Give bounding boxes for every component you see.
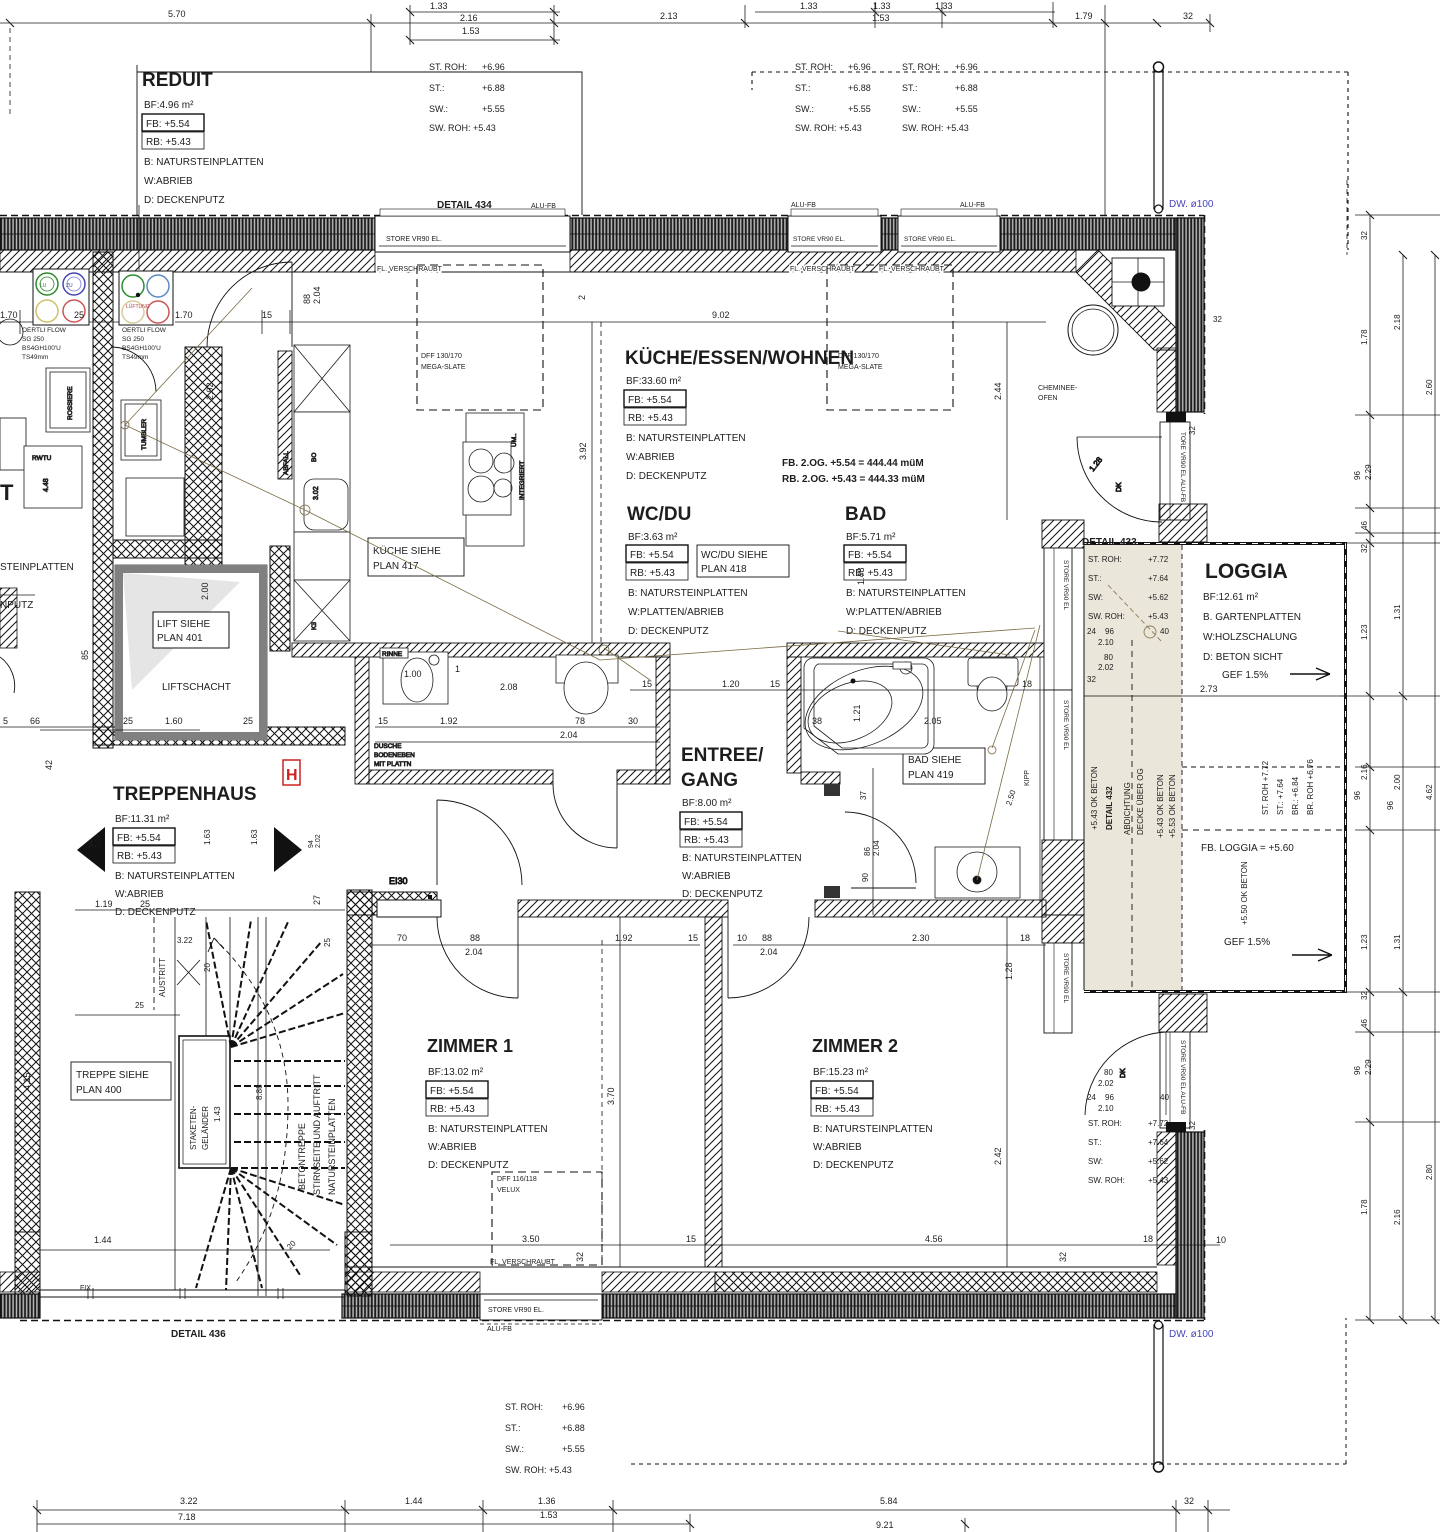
svg-text:32: 32: [1360, 544, 1369, 553]
mid dim row y690: [375, 690, 1046, 742]
bad door: [851, 887, 916, 889]
svg-text:27: 27: [312, 895, 322, 905]
svg-text:2.04: 2.04: [465, 947, 483, 957]
kitchen island + cooktop: [463, 413, 526, 546]
svg-text:TORE VR90 EL ALU-FB: TORE VR90 EL ALU-FB: [1179, 432, 1186, 502]
svg-text:W:HOLZSCHALUNG: W:HOLZSCHALUNG: [1203, 632, 1297, 643]
ENTREE: [680, 745, 802, 900]
svg-text:9.02: 9.02: [712, 310, 730, 320]
svg-text:4.15: 4.15: [22, 1072, 32, 1090]
svg-text:LIFT SIEHE: LIFT SIEHE: [157, 619, 210, 630]
dashed reference rect top right: [752, 72, 1348, 250]
loggia top door block: [1159, 504, 1207, 542]
section arrows: [77, 827, 105, 872]
svg-text:+5.62: +5.62: [1148, 1157, 1169, 1166]
svg-text:2.44: 2.44: [993, 382, 1003, 400]
BAD shower: [935, 847, 1020, 898]
ZIMMER 1: [426, 1036, 548, 1171]
svg-text:2.30: 2.30: [912, 933, 930, 943]
walking line: [214, 938, 288, 1282]
svg-text:ST. ROH:: ST. ROH:: [795, 62, 833, 72]
loggia bottom door: [1085, 1032, 1166, 1115]
lift dims: [80, 582, 210, 660]
svg-text:GEF 1.5%: GEF 1.5%: [1224, 937, 1270, 948]
treppenhaus left wall: [15, 892, 40, 1232]
bottom-left crosshatch piers: [15, 1232, 40, 1294]
svg-text:+7.64: +7.64: [1148, 1138, 1169, 1147]
ZIMMER 2: [811, 1036, 933, 1171]
svg-text:3.70: 3.70: [606, 1087, 616, 1105]
svg-text:DETAIL 432: DETAIL 432: [1105, 786, 1114, 830]
kitchen tall cabinets: [283, 345, 350, 641]
svg-text:ST.:: ST.:: [505, 1423, 521, 1433]
svg-text:66: 66: [30, 716, 40, 726]
zimmer1 door: [517, 917, 519, 998]
top measurement block: [429, 62, 505, 133]
svg-text:ALU-FB: ALU-FB: [960, 202, 985, 209]
svg-text:32: 32: [1213, 315, 1222, 324]
bad floor drain: [851, 679, 856, 684]
vent unit 1: [33, 269, 89, 325]
svg-text:1.53: 1.53: [540, 1510, 558, 1520]
svg-text:15: 15: [688, 933, 698, 943]
svg-text:ST.:: ST.:: [429, 83, 445, 93]
svg-text:OFEN: OFEN: [1038, 395, 1057, 402]
svg-text:+5.50 OK BETON: +5.50 OK BETON: [1240, 861, 1249, 925]
svg-text:+5.53 OK BETON: +5.53 OK BETON: [1168, 774, 1177, 838]
svg-text:1.78: 1.78: [1360, 1199, 1369, 1215]
bottom window: [480, 1259, 602, 1333]
svg-text:2.16: 2.16: [460, 13, 478, 23]
svg-text:ZIMMER 1: ZIMMER 1: [427, 1036, 513, 1056]
svg-text:1.53: 1.53: [462, 26, 480, 36]
svg-text:2.10: 2.10: [1098, 638, 1114, 647]
BAD WC: [968, 658, 1018, 711]
svg-text:RB: +5.43: RB: +5.43: [117, 851, 162, 862]
svg-text:+7.72: +7.72: [1148, 1119, 1169, 1128]
svg-text:PLAN 419: PLAN 419: [908, 770, 954, 781]
svg-text:ST. ROH:: ST. ROH:: [429, 62, 467, 72]
svg-text:2.29: 2.29: [1364, 1059, 1373, 1075]
vent unit 2: [119, 271, 173, 325]
svg-text:80: 80: [1104, 653, 1113, 662]
loggia left small texts: [1087, 555, 1169, 684]
treppenhaus upper dims: [40, 730, 345, 1015]
svg-text:SW.:: SW.:: [505, 1444, 524, 1454]
svg-text:1.79: 1.79: [1075, 11, 1093, 21]
svg-text:ST. ROH +7.72: ST. ROH +7.72: [1261, 760, 1270, 815]
svg-text:BF:3.63 m²: BF:3.63 m²: [628, 532, 678, 543]
stairwell bottom window: [40, 1288, 345, 1340]
svg-text:9.21: 9.21: [876, 1520, 894, 1530]
svg-text:2.02: 2.02: [1098, 1079, 1114, 1088]
svg-text:ROSSIERE: ROSSIERE: [67, 386, 74, 420]
svg-text:1.78: 1.78: [1360, 329, 1369, 345]
svg-text:2.16: 2.16: [1360, 764, 1369, 780]
window W3 top: [898, 209, 1000, 252]
svg-text:AUSTRITT: AUSTRITT: [158, 958, 167, 997]
svg-text:D: DECKENPUTZ: D: DECKENPUTZ: [628, 626, 709, 637]
svg-text:2.80: 2.80: [1425, 1164, 1434, 1180]
svg-text:1.53: 1.53: [872, 13, 890, 23]
svg-text:DUSCHE: DUSCHE: [374, 743, 402, 750]
svg-text:+7.72: +7.72: [1148, 555, 1169, 564]
svg-text:32: 32: [1184, 1496, 1194, 1506]
svg-text:2: 2: [577, 295, 587, 300]
svg-text:BS4GH100'U: BS4GH100'U: [122, 345, 161, 352]
svg-text:BF:12.61 m²: BF:12.61 m²: [1203, 592, 1259, 603]
zimmer top wall xh segment: [347, 892, 437, 915]
svg-text:+6.88: +6.88: [848, 83, 871, 93]
svg-text:DK: DK: [1120, 1068, 1127, 1078]
svg-text:CHEMINEE-: CHEMINEE-: [1038, 385, 1078, 392]
left unit fixtures: [24, 368, 184, 536]
svg-text:GELÄNDER: GELÄNDER: [201, 1106, 210, 1150]
svg-text:37: 37: [859, 791, 868, 800]
svg-text:B: NATURSTEINPLATTEN: B: NATURSTEINPLATTEN: [428, 1124, 548, 1135]
svg-text:SW:: SW:: [1088, 1157, 1103, 1166]
svg-text:1.63: 1.63: [203, 829, 212, 845]
svg-text:LOGGIA: LOGGIA: [1205, 560, 1288, 583]
svg-text:FB. LOGGIA = +5.60: FB. LOGGIA = +5.60: [1201, 843, 1294, 854]
svg-text:ST. ROH:: ST. ROH:: [1088, 1119, 1122, 1128]
svg-text:+5.43 OK BETON: +5.43 OK BETON: [1156, 774, 1165, 838]
svg-text:FB: +5.54: FB: +5.54: [146, 119, 190, 130]
svg-text:FB: +5.54: FB: +5.54: [430, 1086, 474, 1097]
svg-text:30: 30: [628, 716, 638, 726]
svg-text:B: NATURSTEINPLATTEN: B: NATURSTEINPLATTEN: [626, 433, 746, 444]
svg-text:4.56: 4.56: [925, 1234, 943, 1244]
svg-text:STAKETEN-: STAKETEN-: [189, 1105, 198, 1150]
svg-text:+5.55: +5.55: [848, 104, 871, 114]
svg-text:B: NATURSTEINPLATTEN: B: NATURSTEINPLATTEN: [144, 157, 264, 168]
svg-text:BR.: +6.84: BR.: +6.84: [1291, 776, 1300, 815]
svg-text:SW.:: SW.:: [902, 104, 921, 114]
cheminee stove: [1038, 305, 1118, 402]
svg-text:+5.62: +5.62: [1148, 593, 1169, 602]
WC/DU: [626, 504, 789, 637]
svg-text:OERTLI FLOW: OERTLI FLOW: [122, 327, 167, 334]
svg-text:PLAN 418: PLAN 418: [701, 564, 747, 575]
wcdu door: [616, 784, 618, 848]
svg-text:ST.:: ST.:: [1088, 1138, 1102, 1147]
svg-text:TREPPE SIEHE: TREPPE SIEHE: [76, 1070, 149, 1081]
svg-text:DK: DK: [1116, 482, 1123, 492]
top chains: [0, 22, 1210, 24]
svg-text:SW.:: SW.:: [795, 104, 814, 114]
svg-text:88: 88: [302, 294, 312, 304]
svg-text:+5.55: +5.55: [562, 1444, 585, 1454]
svg-text:ZU: ZU: [66, 283, 73, 289]
svg-text:1.33: 1.33: [430, 1, 448, 11]
svg-text:5.84: 5.84: [880, 1496, 898, 1506]
svg-text:STIRNSEITE UND AUFTRITT: STIRNSEITE UND AUFTRITT: [312, 1074, 322, 1195]
svg-text:GEF 1.5%: GEF 1.5%: [1222, 670, 1268, 681]
svg-text:BAD SIEHE: BAD SIEHE: [908, 755, 962, 766]
svg-text:D: DECKENPUTZ: D: DECKENPUTZ: [115, 907, 196, 918]
svg-text:ST. ROH:: ST. ROH:: [1088, 555, 1122, 564]
svg-text:4.48: 4.48: [43, 478, 50, 492]
svg-text:25: 25: [140, 899, 150, 909]
svg-text:38: 38: [812, 716, 822, 726]
svg-text:1.48: 1.48: [856, 567, 866, 585]
svg-text:ST. ROH:: ST. ROH:: [902, 62, 940, 72]
svg-text:BETONTREPPE: BETONTREPPE: [297, 1123, 307, 1190]
bottom chains: [37, 1245, 1230, 1532]
svg-text:25: 25: [135, 1001, 144, 1010]
svg-text:15: 15: [642, 679, 652, 689]
bottom measure block: [505, 1402, 585, 1475]
KUECHE: [624, 348, 925, 485]
svg-text:STORE VR90 EL: STORE VR90 EL: [1062, 700, 1069, 750]
window W1 top: [375, 209, 570, 252]
WC/DU walls: [292, 643, 670, 657]
second vertical wall: [185, 347, 222, 745]
svg-text:1.19: 1.19: [95, 899, 113, 909]
svg-text:32: 32: [1058, 1252, 1068, 1262]
svg-text:2.05: 2.05: [924, 716, 942, 726]
svg-text:8.88: 8.88: [255, 1084, 264, 1100]
right side chains: [1340, 180, 1440, 1320]
svg-text:ST. ROH:: ST. ROH:: [505, 1402, 543, 1412]
svg-text:2.02: 2.02: [315, 834, 322, 848]
svg-text:ALU-FB: ALU-FB: [531, 203, 556, 210]
svg-text:46: 46: [1360, 1019, 1369, 1028]
svg-text:20: 20: [203, 963, 212, 972]
svg-text:ENTREE/: ENTREE/: [681, 745, 764, 766]
svg-text:+6.96: +6.96: [562, 1402, 585, 1412]
svg-text:1.23: 1.23: [1360, 934, 1369, 950]
svg-text:2.02: 2.02: [1098, 663, 1114, 672]
svg-text:W:ABRIEB: W:ABRIEB: [626, 452, 675, 463]
svg-text:BODENEBEN: BODENEBEN: [374, 752, 415, 759]
svg-text:DETAIL 434: DETAIL 434: [437, 200, 492, 211]
svg-text:3.02: 3.02: [313, 486, 320, 500]
svg-text:40: 40: [1160, 1093, 1169, 1102]
svg-text:1.92: 1.92: [440, 716, 458, 726]
svg-text:32: 32: [1188, 1121, 1197, 1130]
svg-text:TREPPENHAUS: TREPPENHAUS: [113, 784, 257, 805]
right wall lower: [1157, 994, 1207, 1320]
svg-text:LU: LU: [40, 283, 47, 289]
svg-text:3.92: 3.92: [578, 442, 588, 460]
svg-text:PLAN 417: PLAN 417: [373, 561, 419, 572]
svg-text:EI30: EI30: [389, 876, 408, 886]
svg-text:ALU-FB: ALU-FB: [791, 202, 816, 209]
TREPPE SIEHE box: [71, 1062, 171, 1100]
svg-text:3.22: 3.22: [177, 936, 193, 945]
svg-text:1.00: 1.00: [404, 669, 422, 679]
svg-text:15: 15: [770, 679, 780, 689]
svg-text:MEGA-SLATE: MEGA-SLATE: [838, 364, 883, 371]
svg-text:RB: +5.43: RB: +5.43: [848, 568, 893, 579]
svg-text:15: 15: [686, 1234, 696, 1244]
svg-text:2.13: 2.13: [660, 11, 678, 21]
vent small texts: [22, 327, 167, 361]
svg-text:STORE VR90 EL.: STORE VR90 EL.: [793, 236, 845, 243]
svg-text:1.33: 1.33: [935, 1, 953, 11]
svg-text:1.63: 1.63: [250, 829, 259, 845]
REDUIT outline: [137, 65, 582, 215]
svg-text:2.92: 2.92: [205, 382, 215, 400]
svg-text:94: 94: [88, 840, 95, 848]
svg-text:DFF 116/118: DFF 116/118: [497, 1176, 537, 1183]
svg-text:1.31: 1.31: [1393, 604, 1402, 620]
svg-text:STORE VR90 EL: STORE VR90 EL: [1062, 953, 1069, 1003]
svg-text:FL. VERSCHRAUBT: FL. VERSCHRAUBT: [879, 266, 945, 273]
right wall window strip upper: [1160, 412, 1190, 520]
svg-text:2.18: 2.18: [1393, 314, 1402, 330]
svg-text:78: 78: [575, 716, 585, 726]
svg-text:B: NATURSTEINPLATTEN: B: NATURSTEINPLATTEN: [846, 588, 966, 599]
svg-text:32: 32: [1183, 11, 1193, 21]
right inner wall / window strip: [1042, 520, 1084, 1033]
left unit door: [111, 347, 156, 392]
svg-text:RINNE: RINNE: [382, 651, 403, 658]
svg-text:KÜCHE/ESSEN/WOHNEN: KÜCHE/ESSEN/WOHNEN: [625, 348, 854, 369]
svg-text:BF:13.02 m²: BF:13.02 m²: [428, 1067, 484, 1078]
chimney flue: [1112, 258, 1164, 306]
svg-text:32: 32: [1360, 231, 1369, 240]
dashed bottom right: [631, 1318, 1346, 1464]
vertical refs top: [9, 28, 11, 115]
svg-text:FB: +5.54: FB: +5.54: [628, 395, 672, 406]
svg-text:STEINPLATTEN: STEINPLATTEN: [0, 562, 74, 573]
svg-text:2.73: 2.73: [1200, 684, 1218, 694]
svg-text:FB. 2.OG. +5.54 = 444.44 müM: FB. 2.OG. +5.54 = 444.44 müM: [782, 458, 924, 469]
svg-text:24: 24: [1087, 1093, 1096, 1102]
svg-text:1.70: 1.70: [0, 310, 18, 320]
svg-text:W:ABRIEB: W:ABRIEB: [682, 871, 731, 882]
svg-text:88: 88: [762, 933, 772, 943]
svg-text:UM..: UM..: [511, 433, 518, 447]
svg-text:15: 15: [378, 716, 388, 726]
svg-text:SW. ROH: +5.43: SW. ROH: +5.43: [429, 123, 496, 133]
svg-text:40: 40: [1160, 627, 1169, 636]
svg-text:DECKE ÜBER OG: DECKE ÜBER OG: [1136, 768, 1145, 835]
svg-text:1.33: 1.33: [873, 1, 891, 11]
svg-text:2.08: 2.08: [500, 682, 518, 692]
svg-text:BF:11.31 m²: BF:11.31 m²: [115, 814, 170, 825]
svg-text:96: 96: [1386, 801, 1395, 810]
svg-text:+5.55: +5.55: [955, 104, 978, 114]
svg-text:STORE VR90 EL.: STORE VR90 EL.: [488, 1307, 544, 1314]
svg-text:PLAN 401: PLAN 401: [157, 633, 203, 644]
svg-text:DFF 130/170: DFF 130/170: [421, 353, 462, 360]
svg-text:2.04: 2.04: [560, 730, 578, 740]
svg-text:FB: +5.54: FB: +5.54: [684, 817, 728, 828]
chamfer corner band: [1076, 250, 1176, 350]
svg-text:2.29: 2.29: [1364, 464, 1373, 480]
svg-text:10: 10: [737, 933, 747, 943]
BAD: [844, 504, 966, 637]
svg-text:ST.: +7.64: ST.: +7.64: [1276, 778, 1285, 815]
svg-text:DETAIL 436: DETAIL 436: [171, 1329, 226, 1340]
svg-text:STORE VR90 EL ALU-FB: STORE VR90 EL ALU-FB: [1179, 1040, 1186, 1114]
svg-text:15: 15: [262, 310, 272, 320]
svg-text:32: 32: [1188, 426, 1197, 435]
svg-text:BO: BO: [311, 453, 318, 462]
svg-text:ST.:: ST.:: [902, 83, 918, 93]
svg-text:GANG: GANG: [681, 770, 738, 791]
svg-text:2.00: 2.00: [1393, 774, 1402, 790]
svg-text:STORE VR90 EL.: STORE VR90 EL.: [904, 236, 956, 243]
svg-text:+5.55: +5.55: [482, 104, 505, 114]
svg-text:B: NATURSTEINPLATTEN: B: NATURSTEINPLATTEN: [682, 853, 802, 864]
svg-text:TS49mm: TS49mm: [122, 354, 148, 361]
svg-text:25: 25: [323, 938, 332, 947]
KUECHE SIEHE box: [368, 538, 464, 576]
svg-text:SW. ROH: +5.43: SW. ROH: +5.43: [505, 1465, 572, 1475]
svg-text:FB: +5.54: FB: +5.54: [117, 833, 161, 844]
svg-text:SW:: SW:: [1088, 593, 1103, 602]
svg-text:32: 32: [1087, 675, 1096, 684]
svg-text:+5.43 OK BETON: +5.43 OK BETON: [1090, 766, 1099, 830]
svg-text:96: 96: [1353, 791, 1362, 800]
top wall inner hatch band: [0, 250, 1076, 272]
svg-text:RB: +5.43: RB: +5.43: [630, 568, 675, 579]
zimmer divider wall: [705, 917, 722, 1267]
svg-text:70: 70: [397, 933, 407, 943]
svg-text:86: 86: [863, 847, 872, 856]
svg-text:1.33: 1.33: [800, 1, 818, 11]
REDUIT: [142, 70, 264, 206]
svg-text:KÜCHE SIEHE: KÜCHE SIEHE: [373, 545, 441, 557]
svg-text:96: 96: [1353, 471, 1362, 480]
zimmer door dim rows: [370, 944, 1046, 946]
svg-text:DW. ø100: DW. ø100: [1169, 199, 1214, 210]
upper fan treads: [196, 920, 345, 1290]
svg-text:DFF 130/170: DFF 130/170: [838, 353, 879, 360]
svg-text:25: 25: [243, 716, 253, 726]
svg-text:96: 96: [1353, 1066, 1362, 1075]
svg-text:D: BETON SICHT: D: BETON SICHT: [1203, 652, 1283, 663]
svg-text:DETAIL 433: DETAIL 433: [1082, 537, 1137, 548]
svg-text:+6.96: +6.96: [955, 62, 978, 72]
svg-text:85: 85: [80, 650, 90, 660]
svg-text:+7.64: +7.64: [1148, 574, 1169, 583]
svg-text:FB: +5.54: FB: +5.54: [630, 550, 674, 561]
svg-text:RB: +5.43: RB: +5.43: [684, 835, 729, 846]
svg-text:K3: K3: [311, 622, 318, 630]
svg-text:25: 25: [123, 716, 133, 726]
svg-text:FL. VERSCHRAUBT: FL. VERSCHRAUBT: [377, 266, 443, 273]
BAD SIEHE box: [903, 748, 985, 784]
svg-text:STORE VR90 EL.: STORE VR90 EL.: [386, 236, 442, 243]
svg-text:LÜFTUNG: LÜFTUNG: [126, 303, 150, 310]
bottom wall: [0, 1267, 1204, 1321]
svg-text:D: DECKENPUTZ: D: DECKENPUTZ: [626, 471, 707, 482]
svg-text:W:ABRIEB: W:ABRIEB: [813, 1142, 862, 1153]
svg-text:+5.43: +5.43: [1148, 612, 1169, 621]
svg-text:10: 10: [1216, 1235, 1226, 1245]
svg-text:+6.96: +6.96: [848, 62, 871, 72]
zimmer2 door: [727, 917, 729, 998]
svg-text:FB: +5.54: FB: +5.54: [848, 550, 892, 561]
svg-text:2.02: 2.02: [95, 834, 102, 848]
treppenhaus right wall: [347, 890, 372, 1296]
svg-text:2.04: 2.04: [760, 947, 778, 957]
svg-text:90: 90: [861, 873, 870, 882]
svg-text:2.60: 2.60: [1425, 379, 1434, 395]
svg-text:1.31: 1.31: [1393, 934, 1402, 950]
svg-text:ABFALL: ABFALL: [283, 451, 290, 475]
svg-text:RB: +5.43: RB: +5.43: [430, 1104, 475, 1115]
svg-text:2.42: 2.42: [993, 1147, 1003, 1165]
svg-text:OERTLI FLOW: OERTLI FLOW: [22, 327, 67, 334]
svg-text:96: 96: [1105, 627, 1114, 636]
svg-text:H: H: [286, 767, 298, 784]
